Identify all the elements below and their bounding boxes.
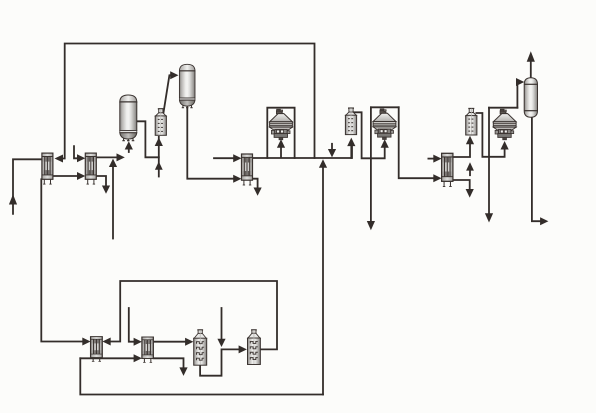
wire S3 left leg drain [488,108,490,215]
arrow short branch head (up) [466,162,474,170]
wire C1 bottom feed riser [158,137,160,177]
wire V1 side outlet to C1 [138,121,159,157]
arrow into V1 bottom (up) [125,141,133,149]
coil bottle B1 [194,330,207,365]
wire E1 bottom outlet down to bottom section [41,179,83,341]
arrow into E4 upper-left (right) [433,155,441,163]
heat exchanger E3 [242,154,253,185]
wire recycle riser from bottom loop [322,167,324,395]
arrow E3 drain head (down) [254,188,262,196]
arrow into E3 lower-left (right) [233,175,241,183]
coil bottle B2 [247,330,260,365]
wire E2 top outlet [97,156,118,158]
arrow E2 outlet free end (right) [117,153,125,161]
wire C4 top to S2 bottom [352,112,385,158]
wire V2 bottom outlet to E3 [187,108,234,179]
arrow on C1 riser below junction (up) [155,162,163,170]
wire E1 to E2 [52,175,78,177]
arrow E2 drain head (down) [102,186,110,194]
wire S2 frame top [371,106,399,108]
column C5 [466,109,477,136]
arrow into E2 upper-left (right) [77,154,85,162]
wire bottom return line [80,358,323,394]
arrow into E6 upper-left (right) [134,338,142,346]
wire E4 bottom outlet drain [453,180,470,190]
arrow into B1 left (right) [185,338,193,346]
separator S2 [373,109,396,140]
wire bottom loop from B2 to E5 [110,281,277,349]
wire feed to E3 upper inlet [214,157,235,159]
arrow S2 drain head (down) [367,221,375,230]
heat exchanger E5 [91,337,103,362]
drum V1 [120,95,138,141]
heat exchanger E4 [442,153,453,186]
arrow into S3 bottom (up) [501,141,509,150]
wire S3 frame top [489,107,517,109]
arrow feed riser head (up) [109,159,117,167]
wire short branch arrow stem [469,171,471,176]
heat exchanger E6 [142,337,153,362]
arrow into E1 right side (left) [55,155,64,163]
wire E2 bottom drain [97,176,107,187]
wire S3 right leg to V3 top [516,82,519,108]
wire S1 bottom feed [280,147,282,158]
wire feed to E4 upper inlet [428,158,434,160]
wire stub feed to E2 [74,146,78,158]
wire E6 top outlet to B1 [153,341,186,343]
wire feed inlet left [13,159,42,214]
wire E6 bottom outlet drain [153,358,183,368]
wire stub feed drop at B2 junction [221,308,223,340]
wire feed riser at x=113 [112,166,114,239]
arrow recycle riser head (up) [319,159,327,168]
wire S2 right leg to E4 lower inlet [399,107,435,178]
arrow into C5 bottom (up) [466,136,474,145]
separator S3 [493,109,516,140]
wire V3 bottom outlet [532,117,541,221]
arrow V3 vent head (up) [527,51,535,62]
arrow S3 drain head (down) [485,213,493,222]
arrow into E5 right (left) [102,338,110,346]
arrow V3 bottom outlet head (right) [540,217,548,225]
arrow into V2 left (right) [170,71,178,79]
arrow into B2 left (right) [239,345,247,353]
heat exchanger E1 [42,153,53,184]
arrow into C1 bottom (up) [155,138,163,147]
arrow feed drop head (down) [328,149,336,157]
arrow feed inlet left (up) [9,194,17,204]
heat exchanger E2 [85,153,96,184]
arrow E6 drain head (down) [179,367,187,376]
wire feed drop into header [331,144,333,150]
wire header from E3 to C4 [253,145,352,158]
wire V3 top vent [530,60,532,78]
arrow into E4 lower-left (right) [433,174,441,182]
wire E4 top outlet to C5 [453,144,470,158]
arrow into S1 bottom (up) [277,139,285,148]
column C4 [345,108,356,134]
wire C5 top to S3 bottom [476,113,504,157]
wire E5 bottom line to E6 lower inlet [80,357,134,359]
arrow E4 drain head (down) [466,189,474,198]
arrow into E5 left (right) [82,338,90,346]
wire C1 top to V2 [163,75,171,114]
arrow into E2 lower-left (right) [77,172,85,180]
separator S1 [270,109,293,140]
arrow into E6 lower-left (right) [134,354,142,362]
wire feed arrow into V1 bottom [128,149,130,152]
drum V2 [179,64,195,107]
wire separator S1 frame [267,108,294,158]
arrow into E3 upper-left (right) [233,154,241,162]
arrow into S2 bottom (up) [381,139,389,148]
wire top recycle loop from header to exchanger E1 [61,44,315,159]
wire B1 bottom outlet to B2 [200,349,239,375]
wire stub feed to E6 [129,308,135,342]
arrow into V3 top (right) [516,78,524,86]
wire S2 left leg drain [370,107,372,222]
tall vessel V3 [524,78,537,117]
wire E3 bottom drain [253,179,258,189]
arrow into C4 bottom (up) [347,138,355,147]
arrow stub drop head (down) [217,339,225,347]
column C1 [155,109,166,136]
wire C4 bottom feed [350,145,352,158]
